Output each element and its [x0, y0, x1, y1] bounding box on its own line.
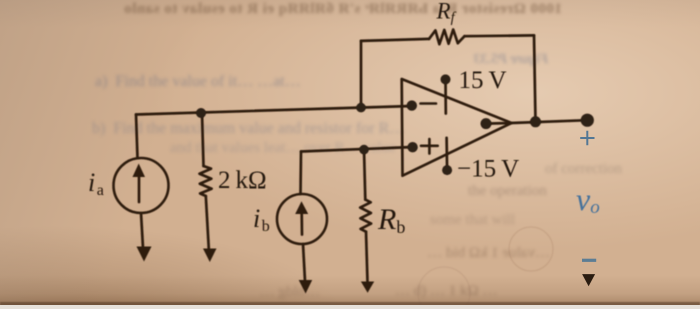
svg-text:ia: ia — [88, 168, 104, 199]
dot: output node — [481, 118, 492, 129]
junction dot: Rb top — [359, 145, 369, 155]
ghost line a — [95, 73, 301, 91]
output minus sign (blue) — [582, 259, 596, 262]
op-amp minus sign — [421, 102, 437, 105]
ground arrowhead marker (black triangle) — [582, 274, 595, 286]
ghost right mid — [468, 183, 547, 200]
wire: Rb bottom lead — [366, 232, 368, 282]
wire: ib bottom lead — [303, 244, 305, 281]
svg-text:−15 V: −15 V — [457, 156, 519, 183]
junction dot: feedback/output — [530, 116, 541, 127]
ghost bleed-through text top row — [52, 1, 562, 18]
resistor Rb — [360, 200, 371, 232]
wire: right riser down to output — [534, 35, 536, 121]
wire: output to terminal — [512, 120, 588, 123]
wire: Rf left lead — [361, 39, 429, 41]
wire: inverting input net (ia top to op-amp minus) — [136, 106, 412, 115]
arrowhead below Rb — [361, 282, 374, 293]
svg-text:2 kΩ: 2 kΩ — [218, 167, 267, 194]
wire: ib top lead — [299, 152, 302, 195]
svg-text:Rb: Rb — [377, 203, 405, 237]
op-amp U1 triangle — [402, 79, 512, 176]
wire: Rb top lead — [364, 150, 365, 200]
current source ib — [277, 194, 327, 244]
arrowhead below ib — [299, 280, 313, 294]
wire: +15V supply lead — [444, 79, 447, 113]
dot: +15V pin — [441, 74, 451, 84]
output plus sign (blue) — [580, 131, 594, 145]
arrowhead below 2k — [203, 249, 217, 263]
svg-text:vo: vo — [576, 181, 600, 218]
ghost line b — [92, 120, 405, 138]
junction dot: 2k top — [196, 108, 206, 118]
wire: Rf right lead — [465, 34, 535, 37]
svg-text:ib: ib — [253, 204, 270, 235]
dot: non-inverting input — [407, 142, 417, 152]
svg-text:Rf: Rf — [436, 0, 457, 26]
ghost circle watermark 1 — [509, 227, 553, 271]
wire: -15V supply lead — [445, 138, 448, 170]
dot: -15V pin — [442, 165, 452, 175]
wire: 2k bottom lead — [206, 196, 209, 249]
ghost figure label — [448, 52, 548, 68]
wire: feedback riser — [360, 41, 363, 108]
arrow inside ib — [300, 213, 303, 235]
wire: ia source top lead — [136, 115, 138, 159]
op-amp plus sign — [421, 139, 438, 154]
resistor Rf — [429, 30, 465, 45]
wire: ia bottom lead — [141, 213, 143, 248]
wire: 2k top lead — [202, 113, 204, 166]
resistor 2 kOhm — [200, 166, 212, 196]
arrowhead below ia — [137, 247, 152, 262]
ghost circle watermark 2 — [418, 267, 470, 309]
current source ia — [114, 158, 169, 213]
ghost bottom rows — [150, 245, 550, 262]
dot: inverting input — [407, 100, 417, 110]
arrow inside ia — [138, 176, 141, 202]
wire: output dot to apex — [486, 122, 512, 125]
junction dot: feedback tap — [356, 103, 366, 113]
terminal dot: vo — [581, 114, 594, 127]
wire: non-inverting net (ib top to op-amp plus) — [301, 147, 413, 152]
svg-text:15 V: 15 V — [459, 67, 507, 94]
